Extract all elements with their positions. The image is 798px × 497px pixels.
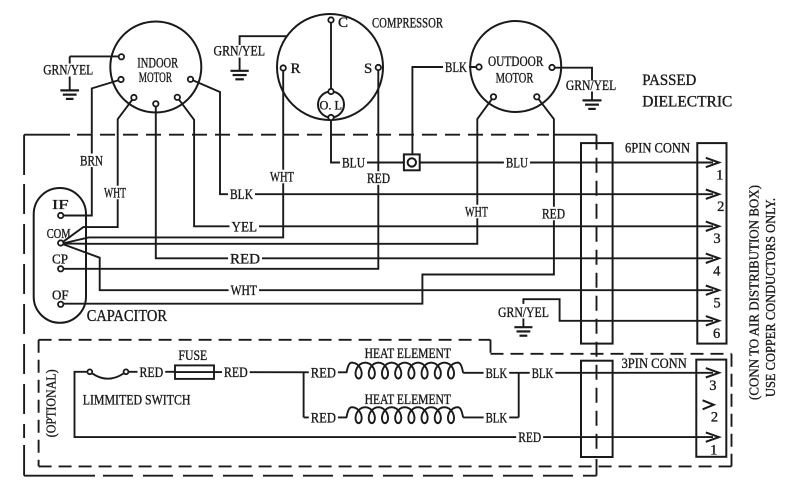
outdoor motor terminal bottom-right	[534, 94, 539, 99]
label WHT outdoor	[463, 205, 490, 219]
optional-section dashed box - right edge	[731, 354, 733, 467]
svg-text:IF: IF	[52, 198, 69, 213]
limit switch terminal left	[87, 369, 92, 374]
overload terminal bottom	[328, 115, 333, 120]
svg-text:HEAT ELEMENT: HEAT ELEMENT	[365, 392, 452, 408]
wire RED - outdoor motor bottom-right terminal to capacitor OF	[63, 97, 554, 304]
svg-text:GRN/YEL: GRN/YEL	[498, 305, 549, 321]
wire - compressor C to overload O.L	[330, 23, 332, 92]
label BLK joined	[530, 366, 556, 380]
label RED heat1	[309, 366, 338, 380]
svg-text:FUSE: FUSE	[178, 348, 207, 364]
svg-text:RED: RED	[518, 430, 541, 446]
svg-text:3: 3	[709, 378, 716, 394]
svg-text:GRN/YEL: GRN/YEL	[566, 78, 616, 94]
outdoor motor terminal left	[476, 64, 481, 69]
svg-text:WHT: WHT	[465, 205, 488, 221]
svg-text:5: 5	[713, 296, 720, 312]
6PIN connector box	[697, 143, 726, 344]
svg-text:GRN/YEL: GRN/YEL	[43, 63, 93, 79]
wire - switch to fuse	[128, 371, 175, 373]
svg-text:OUTDOOR: OUTDOOR	[488, 54, 543, 70]
svg-text:WHT: WHT	[104, 186, 126, 202]
6PIN pin 2 arrow	[706, 190, 719, 199]
outer unit enclosure dashed box - bottom edge	[24, 475, 95, 477]
label BLU left	[340, 156, 367, 170]
capacitor terminal IF	[58, 213, 63, 218]
wire WHT - capacitor COM to 6PIN pin 5	[63, 244, 714, 290]
svg-text:MOTOR: MOTOR	[496, 71, 534, 87]
6PIN pin 1 arrow	[706, 158, 719, 167]
svg-text:RED: RED	[230, 251, 260, 267]
heat element 1 coil	[347, 363, 464, 379]
ground lead GRN/YEL compressor (stem)	[239, 58, 241, 71]
svg-text:COM: COM	[47, 227, 71, 242]
svg-text:MOTOR: MOTOR	[139, 70, 172, 86]
capacitor terminal CP	[58, 266, 63, 271]
optional-section dashed box - top edge right part	[491, 353, 732, 355]
indoor motor terminal bottom-left	[131, 95, 136, 100]
label WHT compressor	[268, 170, 296, 184]
outer enclosure boundary through connectors (center dashed line)	[596, 135, 598, 457]
label BLK heat2	[484, 411, 510, 425]
label RED fuse-branch	[222, 365, 250, 379]
wire RED - indoor motor bottom-middle terminal to 6PIN pin 4	[156, 104, 713, 258]
wire WHT - compressor R to capacitor COM	[63, 70, 284, 243]
svg-text:RED: RED	[311, 365, 336, 381]
wire WHT - indoor motor bottom-left terminal to capacitor COM	[63, 98, 134, 243]
optional-section dashed box - left edge	[38, 340, 40, 467]
optional-section dashed box - bottom edge	[39, 465, 732, 467]
6PIN pin 5 arrow	[706, 286, 719, 295]
svg-text:BLU: BLU	[342, 156, 365, 172]
3PIN pin 1 arrow	[706, 432, 719, 441]
svg-text:GRN/YEL: GRN/YEL	[214, 43, 266, 59]
svg-text:LIMMITED SWITCH: LIMMITED SWITCH	[83, 392, 191, 408]
wire - fuse to heat element branch	[214, 371, 347, 373]
svg-text:1: 1	[716, 167, 723, 183]
compressor internal overload O.L body	[318, 92, 344, 118]
svg-text:USE COPPER CONDUCTORS ONLY.: USE COPPER CONDUCTORS ONLY.	[763, 198, 778, 397]
wire BLU - junction box to 6PIN pin 1	[420, 162, 713, 164]
svg-text:CAPACITOR: CAPACITOR	[87, 306, 168, 325]
fuse F1	[175, 365, 214, 379]
svg-text:BLK: BLK	[486, 410, 508, 426]
3PIN pin 3 arrow	[706, 368, 719, 377]
svg-text:6PIN CONN: 6PIN CONN	[625, 140, 690, 156]
3PIN bulkhead strip	[581, 361, 613, 457]
indoor motor terminal right	[188, 77, 193, 82]
svg-text:1: 1	[710, 442, 717, 458]
wire - branch to heat element 2 coil	[304, 416, 347, 418]
label BLK outdoor	[443, 60, 469, 74]
wire - limit switch loop (left side and bottom RED to 3PIN pin 1)	[75, 372, 714, 437]
capacitor terminal COM	[58, 240, 63, 245]
wire BLK - indoor motor right terminal to 6PIN pin 2	[191, 79, 714, 194]
svg-text:BLK: BLK	[532, 366, 554, 382]
label YEL	[230, 220, 260, 234]
label BRN	[78, 154, 105, 168]
optional-section dashed box - top edge step	[490, 340, 492, 354]
svg-text:COMPRESSOR: COMPRESSOR	[372, 15, 443, 31]
outdoor motor terminal right	[549, 65, 554, 70]
svg-text:RED: RED	[367, 171, 390, 187]
wire BLU - overload to junction box	[331, 120, 404, 163]
svg-text:WHT: WHT	[270, 170, 294, 186]
wire - heat element 1 to BLK junction	[463, 372, 713, 374]
indoor motor terminal bottom-right	[175, 95, 180, 100]
label BLU right	[504, 156, 530, 170]
svg-text:DIELECTRIC: DIELECTRIC	[642, 94, 732, 111]
label RED outdoor	[540, 207, 567, 221]
ground lead GRN/YEL indoor (stem)	[69, 56, 71, 63]
capacitor terminal OF	[58, 302, 63, 307]
wire BRN - indoor motor lower-left terminal to capacitor IF	[63, 80, 121, 216]
compressor terminal S	[376, 65, 381, 70]
limit switch blade (arc)	[92, 373, 124, 378]
svg-text:BRN: BRN	[80, 153, 103, 169]
outdoor motor body	[470, 21, 561, 112]
label RED pin4	[228, 252, 262, 265]
outer unit enclosure dashed box - left edge	[23, 135, 25, 175]
svg-text:BLK: BLK	[230, 187, 253, 203]
svg-text:(OPTIONAL): (OPTIONAL)	[43, 369, 58, 437]
indoor motor body	[110, 22, 201, 113]
svg-text:S: S	[364, 61, 372, 77]
ground lead GRN/YEL pin6 (stem)	[522, 319, 524, 328]
wire - heat element 2 to BLK junction	[463, 416, 519, 418]
wire GRN/YEL - ground to 6PIN pin 6	[523, 299, 713, 321]
optional-section dashed box - top edge left part	[39, 339, 491, 341]
limit switch terminal right	[124, 369, 129, 374]
indoor motor terminal upper-left	[119, 54, 124, 59]
6PIN pin 4 arrow	[706, 254, 719, 263]
6PIN bulkhead strip	[581, 143, 613, 344]
ground symbol indoor	[60, 89, 79, 91]
label WHT pin5	[229, 283, 259, 297]
wire - outdoor motor right terminal to ground	[552, 68, 592, 81]
svg-text:WHT: WHT	[231, 283, 258, 299]
wire BLK - outdoor motor left terminal to junction box	[412, 67, 479, 154]
wire WHT - outdoor motor bottom-left terminal to capacitor COM	[63, 97, 494, 244]
svg-text:BLU: BLU	[506, 156, 529, 172]
svg-text:R: R	[291, 61, 301, 77]
svg-text:2: 2	[711, 409, 718, 425]
svg-text:RED: RED	[140, 365, 164, 381]
wire - BLK junction vertical	[518, 373, 520, 418]
compressor terminal R	[281, 65, 286, 70]
svg-text:4: 4	[713, 263, 721, 279]
3PIN pin 2 chevron	[703, 400, 714, 409]
svg-text:2: 2	[717, 199, 724, 215]
compressor body	[277, 14, 383, 120]
svg-text:PASSED: PASSED	[642, 72, 696, 89]
wire - indoor motor upper-left terminal to ground	[70, 55, 122, 57]
heat element 2 coil	[347, 407, 464, 423]
junction box (BLK/BLU splice)	[404, 154, 420, 170]
svg-text:HEAT ELEMENT: HEAT ELEMENT	[365, 346, 452, 362]
svg-text:RED: RED	[542, 207, 565, 223]
svg-text:O. L: O. L	[320, 99, 343, 113]
indoor motor terminal lower-left	[118, 77, 123, 82]
6PIN pin 6 arrow	[706, 316, 719, 325]
svg-text:OF: OF	[52, 288, 69, 303]
label BLK pin2	[228, 187, 255, 201]
outdoor motor terminal bottom-left	[491, 94, 496, 99]
label BLK heat1	[484, 366, 510, 380]
label RED compressor	[365, 171, 392, 185]
outer unit enclosure dashed box - top edge	[24, 134, 70, 136]
wire YEL - indoor motor bottom-right terminal to 6PIN pin 3	[177, 97, 713, 226]
svg-text:YEL: YEL	[232, 219, 258, 235]
compressor terminal C	[328, 17, 333, 22]
svg-text:3: 3	[713, 231, 720, 247]
svg-text:RED: RED	[224, 365, 248, 381]
capacitor body	[34, 188, 86, 323]
ground symbol pin6	[514, 326, 532, 328]
svg-text:(CONN TO AIR DISTRIBUTION BOX): (CONN TO AIR DISTRIBUTION BOX)	[747, 185, 763, 400]
svg-text:3PIN CONN: 3PIN CONN	[622, 356, 688, 372]
label RED heat2	[309, 411, 338, 425]
svg-text:BLK: BLK	[486, 366, 508, 382]
indoor motor terminal bottom-middle	[153, 101, 158, 106]
ground symbol compressor	[230, 70, 248, 72]
svg-text:C: C	[338, 15, 348, 31]
overload terminal top	[328, 89, 333, 94]
wire - branch down to heat element 2	[303, 372, 305, 417]
ground lead GRN/YEL outdoor (stem)	[591, 92, 593, 101]
svg-text:BLK: BLK	[445, 60, 467, 76]
ground symbol outdoor	[583, 99, 602, 101]
svg-text:CP: CP	[52, 252, 68, 267]
svg-text:6: 6	[713, 326, 720, 342]
label RED switch-fuse	[138, 365, 166, 379]
label RED 3pin1	[516, 430, 543, 444]
3PIN connector box	[696, 360, 726, 457]
wire - compressor case to ground GRN/YEL	[240, 36, 287, 45]
6PIN pin 3 arrow	[706, 222, 719, 231]
wire RED - compressor S to capacitor CP	[63, 70, 378, 269]
svg-text:RED: RED	[311, 410, 336, 426]
label WHT indoor	[102, 186, 128, 200]
